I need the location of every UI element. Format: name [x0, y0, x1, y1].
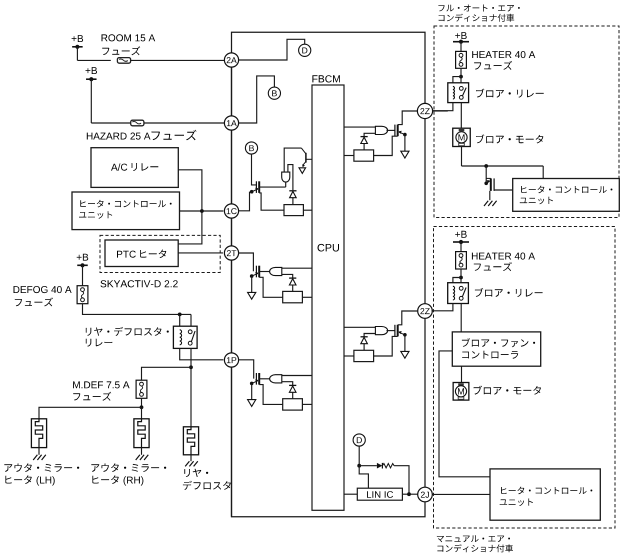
- wire +B to DEFOG fuse: [82, 265, 84, 285]
- wire to relay 1 coil pin: [453, 77, 461, 83]
- diode D (2T block): [289, 278, 296, 285]
- wire ROOM fuse to node 2A: [131, 59, 225, 61]
- blower motor (1): [453, 128, 471, 146]
- wire to M.DEF fuse: [142, 367, 192, 380]
- power +B (HEATER fuse 1): [453, 32, 469, 44]
- wire diode to resistor: [292, 392, 294, 398]
- junction mirror heater split: [140, 405, 144, 409]
- label fuse (katakana): [474, 262, 512, 271]
- label DEFOG 40 A: [14, 286, 72, 293]
- label PTC heater: [117, 251, 136, 258]
- connector node 2Z (top): [417, 103, 432, 118]
- wire driver input2 to diode: [282, 274, 293, 278]
- open arrow (2T source): [248, 292, 256, 299]
- PTC heater box: [105, 240, 178, 267]
- ground (LH heater): [33, 455, 46, 460]
- open arrow (2Z mid): [401, 351, 409, 358]
- open arrow (2Z top): [401, 151, 409, 158]
- label HCU 1 line2: [520, 197, 553, 205]
- label HAZARD 25 A: [87, 133, 151, 140]
- wire LH heater to ground: [38, 448, 40, 455]
- junction relay 1 feed: [459, 75, 463, 79]
- wire MOSFET source to ground: [489, 191, 491, 200]
- CPU block of FBCM: [312, 85, 344, 510]
- dashed box manual air conditioner: [434, 227, 616, 529]
- wire MOSFET source down: [251, 383, 253, 399]
- wire CPU to driver input1 (2Z mid): [344, 326, 375, 328]
- wire tag D down: [358, 446, 360, 466]
- power +B (ROOM fuse feed): [72, 35, 84, 49]
- diode D (1P block): [289, 385, 296, 392]
- wire MOSFET gate to driver: [259, 186, 286, 188]
- transistor Q (1C block): [301, 148, 312, 167]
- wire node 1C to MOSFET: [238, 192, 250, 211]
- wire LIN IC to node 2J: [402, 493, 418, 495]
- wire gate to driver: [259, 271, 269, 273]
- wire driver to MOSFET gate: [387, 330, 395, 332]
- wire CPU to driver input1 (2Z top): [344, 126, 375, 128]
- power +B (HAZARD fuse feed): [86, 67, 98, 81]
- wire driver output: [285, 182, 287, 187]
- blower motor (2): [453, 383, 469, 401]
- wire PTC heater to node 2T: [178, 252, 223, 254]
- label full-auto A/C line1: [438, 5, 519, 12]
- driver gate (2Z mid): [375, 327, 387, 335]
- label outer mirror heater RH line2: [92, 475, 143, 485]
- resistor R (2Z mid block): [354, 350, 374, 361]
- wire MOSFET to open arrow: [404, 336, 406, 352]
- label HCU 2 line2: [500, 499, 533, 507]
- wire fuse to blower relay 1: [460, 68, 462, 83]
- connector node 1C: [224, 204, 238, 218]
- wire +B to ROOM fuse: [76, 47, 78, 61]
- label rear defroster line1: [184, 469, 208, 477]
- wire diode to resistor: [292, 285, 294, 291]
- blower relay (2): [448, 283, 469, 304]
- label blower motor (2): [474, 386, 541, 395]
- blower relay (1): [448, 83, 469, 103]
- tag circle D (LIN): [353, 434, 365, 446]
- outer mirror heater (LH) element: [31, 419, 46, 448]
- label blower fan controller line2: [462, 351, 518, 359]
- wire junction to LIN IC top: [359, 466, 368, 489]
- wire resistor to MOSFET source: [374, 136, 398, 155]
- label outer mirror heater LH line1: [4, 463, 79, 472]
- wire rear defroster to ground: [190, 455, 192, 461]
- dashed box full-auto air conditioner: [434, 26, 619, 218]
- driver gate (2Z top): [375, 126, 387, 134]
- label full-auto A/C line2: [439, 14, 515, 22]
- MOSFET driver (2Z mid): [395, 325, 407, 337]
- wire motor 1 to HCU 1: [462, 165, 544, 167]
- resistor R (2Z top block): [354, 150, 374, 161]
- wire HAZARD fuse to node 1A: [144, 122, 224, 124]
- wire heater control unit to node 1C: [180, 210, 224, 212]
- label HCU 2 line1: [501, 487, 592, 495]
- wire resistor to CPU: [303, 209, 312, 211]
- diode D (2Z top block): [361, 137, 368, 144]
- wire node 2J to HCU 2: [432, 493, 490, 495]
- connector node 1A: [224, 116, 238, 130]
- MOSFET driver (2Z top): [395, 125, 407, 137]
- wire RH heater to ground: [141, 448, 143, 455]
- wire M.DEF fuse down: [141, 398, 143, 407]
- wire to ROOM fuse left: [77, 59, 110, 61]
- wire driver input1 to CPU: [282, 267, 312, 269]
- FBCM label: [312, 75, 340, 82]
- junction relay coil feed: [178, 313, 182, 317]
- connector node 2T: [224, 246, 238, 260]
- label manual A/C line2: [437, 544, 513, 552]
- label HEATER 40 A (2): [472, 253, 535, 260]
- resistor R (1C block): [284, 205, 303, 216]
- junction MOSFET branch (1): [484, 164, 488, 168]
- label fuse (katakana): [474, 61, 512, 70]
- label rear defroster line2: [183, 481, 231, 490]
- wire MOSFET drain to resistor: [259, 193, 284, 210]
- label blower relay (2): [475, 288, 543, 297]
- wire +B to HEATER fuse 1: [460, 42, 462, 52]
- wire diode to resistor: [363, 144, 365, 150]
- wire motor 1 down: [461, 147, 463, 167]
- tag circle B (off 1A): [268, 87, 280, 99]
- junction LIN branch: [357, 464, 361, 468]
- label fuse (katakana): [15, 298, 53, 307]
- wire +B to HEATER fuse 2: [460, 242, 462, 252]
- wire resistor to CPU: [302, 403, 312, 405]
- rear defroster relay: [173, 326, 197, 348]
- MOSFET (full-auto section): [484, 178, 494, 191]
- label M.DEF 7.5 A: [73, 381, 130, 388]
- wire node 1P to MOSFET: [238, 360, 254, 379]
- ground (rear defroster): [185, 461, 198, 466]
- wire relay 1 switch to blower motor 1: [460, 103, 462, 129]
- connector node 1P: [224, 353, 238, 367]
- wire diode to resistor: [292, 198, 294, 205]
- wire diode to driver input 2: [288, 165, 293, 191]
- wire node 1A to tag B: [239, 76, 275, 123]
- wire driver input to transistor collector: [284, 148, 301, 172]
- wire coil pin top: [179, 314, 181, 326]
- wire node 2Z top into dashed box: [432, 110, 448, 112]
- wire switch pin top: [190, 314, 192, 326]
- MOSFET driver (1P): [250, 373, 259, 385]
- driver gate (2T): [270, 267, 282, 275]
- wire A/C relay to PTC heater feed: [178, 170, 202, 244]
- outer mirror heater (RH) element: [134, 419, 149, 448]
- wire driver input1 to CPU: [282, 375, 312, 377]
- wire relay 2 coil to node 2Z mid: [432, 304, 453, 311]
- wire relay 1 coil to node 2Z top: [432, 103, 453, 111]
- wire MOSFET drain to node 2Z mid: [398, 311, 418, 325]
- driver gate (1C, vertical): [282, 172, 290, 182]
- fuse HEATER 40 A (2): [456, 252, 467, 269]
- CPU label: [318, 244, 340, 252]
- resistor R (2T block): [283, 291, 303, 302]
- connector node 2J: [418, 487, 433, 502]
- wire node 2A to tag D: [239, 39, 305, 60]
- wire CPU to LIN IC: [344, 493, 357, 495]
- label A/C relay: [111, 163, 127, 170]
- wire to HAZARD fuse: [91, 122, 130, 124]
- wire to relay 2 coil pin: [453, 278, 461, 283]
- ground (RH heater): [136, 455, 149, 460]
- ground (full-auto MOSFET): [484, 201, 497, 206]
- wire MOSFET source down: [251, 276, 253, 292]
- FBCM module boundary box: [232, 32, 426, 516]
- wire junction to MOSFET (1): [485, 166, 487, 183]
- fuse HEATER 40 A (1): [456, 51, 467, 68]
- wire tag B to MOSFET source: [252, 154, 257, 185]
- label manual A/C line1: [437, 535, 510, 542]
- wire zigzag to 2J net: [394, 466, 409, 495]
- connector node 2A: [224, 53, 238, 67]
- wire relay switch down to rear defroster: [190, 348, 192, 426]
- fuse DEFOG 40 A: [77, 286, 88, 304]
- wire controller to blower motor 2: [461, 366, 463, 382]
- label SKYACTIV-D 2.2: [101, 280, 178, 287]
- diode D (2Z mid block): [361, 337, 368, 344]
- driver gate (1P): [270, 375, 282, 383]
- wire MOSFET gate to HCU 1: [494, 189, 513, 191]
- wire down to HCU 1 top: [542, 166, 544, 179]
- label outer mirror heater RH line1: [91, 463, 166, 472]
- label ROOM 15 A: [102, 34, 156, 41]
- FBCM left edge bus wire: [231, 67, 233, 517]
- junction relay 2 feed: [459, 276, 463, 280]
- wire resistor to MOSFET source: [374, 336, 398, 356]
- MOSFET high-side driver (1C): [250, 181, 259, 193]
- wire driver input2 to diode: [282, 382, 293, 386]
- dashed box SKYACTIV-D 2.2: [100, 235, 220, 272]
- label blower fan controller line1: [462, 338, 535, 347]
- open arrow (1P source): [248, 400, 256, 407]
- label LIN IC: [367, 491, 393, 498]
- wire relay 2 switch to blower fan controller: [460, 304, 462, 332]
- wire DEFOG fuse to rear defroster relay: [83, 304, 192, 315]
- wire node 2T to MOSFET: [237, 253, 253, 271]
- fuse HAZARD 25 A: [131, 120, 144, 126]
- wire MOSFET drain to node 2Z top: [398, 111, 418, 125]
- label fuse (katakana): [102, 46, 140, 55]
- connector node 2Z (mid): [418, 304, 433, 319]
- wire fuse 2 to blower relay 2: [460, 269, 462, 283]
- wire to outer mirror heater LH: [39, 407, 142, 419]
- A/C relay box: [91, 148, 178, 188]
- junction M.DEF branch: [189, 365, 193, 369]
- power +B (HEATER fuse 2): [453, 231, 469, 244]
- MOSFET driver (2T): [250, 266, 259, 278]
- LIN IC box: [357, 488, 402, 500]
- wire MOSFET drain to resistor: [259, 385, 283, 405]
- label heater control unit line1: [80, 200, 171, 208]
- tag circle B (1C block): [245, 142, 257, 154]
- resistor (LIN branch, zigzag): [382, 464, 394, 468]
- open arrow below transistor (1C): [299, 168, 306, 174]
- wire relay coil to node 1P: [180, 348, 224, 359]
- label fuse (katakana): [73, 392, 111, 401]
- fuse ROOM 15 A: [117, 58, 130, 64]
- label blower relay (1): [476, 89, 544, 98]
- label HEATER 40 A (1): [472, 51, 535, 58]
- label heater control unit line2: [79, 211, 112, 219]
- wire to outer mirror heater RH: [141, 407, 143, 419]
- label rear defroster relay line1: [86, 327, 169, 336]
- fuse M.DEF 7.5 A: [136, 380, 147, 398]
- rear defroster heater element: [183, 427, 198, 455]
- wire MOSFET to open arrow: [404, 136, 406, 152]
- heater control unit box (left): [72, 192, 180, 230]
- wire diode to resistor: [363, 344, 365, 351]
- wire to diode: [359, 465, 377, 467]
- junction LIN output: [407, 492, 411, 496]
- label blower motor (1): [476, 134, 543, 143]
- label HCU 1 line1: [521, 186, 612, 194]
- wire blower fan controller to HCU 2: [439, 351, 490, 477]
- junction A/C relay wire on 1C wire: [200, 209, 204, 213]
- blower fan controller box: [452, 332, 540, 366]
- heater control unit box (full-auto): [513, 179, 620, 212]
- diode D (1C block): [289, 191, 296, 198]
- wire MOSFET drain to resistor: [259, 277, 283, 297]
- label rear defroster relay line2: [86, 339, 113, 347]
- wire driver input2 to diode: [364, 133, 375, 136]
- resistor R (1P block): [283, 399, 303, 410]
- tag circle D (top): [299, 44, 311, 56]
- wire driver to MOSFET gate: [387, 129, 395, 131]
- wire +B down: [90, 79, 92, 123]
- diode (LIN branch, filled): [377, 463, 383, 469]
- power +B (DEFOG fuse feed): [77, 254, 89, 268]
- wire gate to driver: [259, 378, 269, 380]
- wire driver input2 to diode: [364, 334, 375, 337]
- wire resistor to CPU: [302, 296, 312, 298]
- wire CPU to resistor: [344, 155, 354, 157]
- label outer mirror heater LH line2: [5, 475, 54, 485]
- wire CPU to resistor: [344, 355, 354, 357]
- label fuse (katakana) inline: [152, 130, 197, 141]
- heater control unit box (manual): [490, 469, 600, 520]
